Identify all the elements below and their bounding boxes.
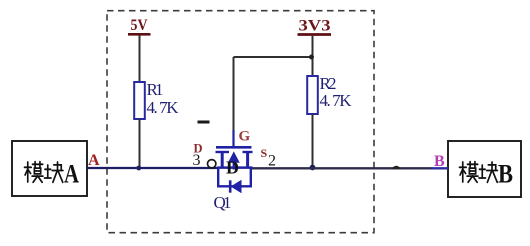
svg-text:A: A <box>64 160 79 189</box>
模 <box>25 162 43 183</box>
svg-text:B: B <box>498 160 513 189</box>
junction 3V3/gate <box>309 55 314 60</box>
power 5V <box>128 17 151 34</box>
bulk arrow <box>229 153 239 163</box>
svg-text:B: B <box>434 153 445 170</box>
wire Q1 source to module B <box>251 167 431 169</box>
svg-text:Q1: Q1 <box>214 193 232 212</box>
svg-text:2: 2 <box>268 153 276 170</box>
svg-text:4. 7K: 4. 7K <box>147 98 180 117</box>
channel line <box>217 166 253 169</box>
right plate <box>243 151 253 153</box>
body loop <box>218 168 251 186</box>
junction R2/wireB <box>310 165 316 171</box>
gate bar <box>216 146 252 149</box>
dashed frame <box>107 11 374 233</box>
gate pin <box>232 130 234 147</box>
svg-text:D: D <box>226 158 239 178</box>
wire module A to Q1 drain <box>87 167 218 169</box>
pin circle at Q1 drain <box>208 160 216 168</box>
wire stub at module B <box>431 167 448 169</box>
svg-text:3V3: 3V3 <box>299 18 331 35</box>
pin marker near Q1 <box>198 121 210 124</box>
wire gate vertical <box>233 57 235 131</box>
wire R1 to node A <box>139 119 141 168</box>
transistor Q1 <box>216 130 253 193</box>
wire hop <box>392 166 402 169</box>
模 <box>460 162 478 183</box>
junction R1/wireA <box>136 166 141 171</box>
module A box <box>12 141 87 196</box>
resistor R2 <box>307 74 352 114</box>
svg-text:G: G <box>239 129 251 145</box>
left plate <box>216 151 230 153</box>
svg-text:4. 7K: 4. 7K <box>320 91 353 110</box>
module B box <box>448 141 521 197</box>
svg-text:S: S <box>261 146 268 160</box>
svg-text:A: A <box>88 152 100 169</box>
wire 5V to R1 <box>139 36 141 83</box>
power 3V3 <box>298 18 332 35</box>
svg-text:5V: 5V <box>131 17 148 34</box>
svg-text:R1: R1 <box>147 80 164 99</box>
wire R2 to node B <box>312 114 314 168</box>
块 <box>479 162 497 182</box>
svg-text:3: 3 <box>193 152 201 169</box>
块 <box>45 162 63 182</box>
body diode <box>229 180 232 192</box>
wire 3V3 to junction <box>312 36 314 77</box>
resistor R1 <box>134 80 179 119</box>
wire gate branch horizontal <box>234 56 313 58</box>
